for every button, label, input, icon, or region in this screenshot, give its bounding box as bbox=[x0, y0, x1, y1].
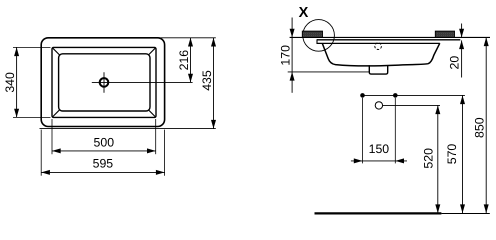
drain crosshair vertical bbox=[103, 72, 105, 93]
basin rim bottom line bbox=[317, 42, 440, 44]
dim 500 extension left bbox=[51, 119, 53, 154]
corner chamfer TR bbox=[148, 48, 155, 55]
bowl bottom rect bbox=[59, 54, 150, 111]
dim 595 line bbox=[41, 171, 164, 173]
corner chamfer TL bbox=[53, 48, 60, 55]
svg-text:435: 435 bbox=[200, 70, 214, 91]
fixing holes reference line bbox=[363, 94, 465, 96]
dim 340 line bbox=[16, 47, 18, 117]
fixing point left bbox=[360, 93, 365, 98]
dim 520 line bbox=[437, 105, 439, 213]
fixing point right bbox=[393, 93, 398, 98]
dim 595 extension right bbox=[164, 130, 166, 176]
dim 500 extension right bbox=[155, 119, 157, 154]
svg-text:150: 150 bbox=[369, 142, 390, 156]
dim 500 line bbox=[52, 150, 156, 152]
waste outlet reference line bbox=[383, 104, 440, 106]
overflow hole (hidden, dashed) bbox=[375, 43, 382, 50]
dim 150 extension left bbox=[362, 98, 364, 163]
basin rim front edge bbox=[316, 39, 318, 44]
corner chamfer BR bbox=[148, 110, 155, 117]
svg-text:340: 340 bbox=[3, 72, 17, 93]
basin outer rim (rounded rect) bbox=[41, 38, 164, 127]
svg-text:216: 216 bbox=[177, 50, 191, 71]
svg-text:520: 520 bbox=[422, 148, 436, 169]
svg-text:20: 20 bbox=[448, 56, 462, 70]
waste outlet circle bbox=[375, 102, 382, 109]
dim 435 line bbox=[213, 38, 215, 129]
countertop section right (hatched) bbox=[435, 31, 454, 37]
dim 340 extension bottom bbox=[13, 116, 51, 118]
extension line from top edge bbox=[155, 37, 216, 39]
dim 850 line bbox=[485, 37, 487, 213]
dim 20 lower line bbox=[461, 40, 463, 77]
svg-text:500: 500 bbox=[94, 135, 115, 149]
countertop underside line bbox=[290, 36, 490, 38]
dim 340 extension top bbox=[13, 46, 51, 48]
floor line thick bbox=[315, 212, 442, 214]
floor line thin bbox=[441, 213, 489, 215]
drain circle bbox=[100, 78, 109, 87]
svg-text:850: 850 bbox=[473, 117, 487, 138]
countertop section left (hatched) bbox=[302, 31, 322, 37]
dim 150 line bbox=[351, 160, 407, 162]
dim 216 line bbox=[190, 38, 192, 83]
svg-text:170: 170 bbox=[279, 45, 293, 66]
dim 170 line bbox=[291, 18, 293, 93]
basin bottom silhouette line bbox=[40, 128, 216, 130]
dim 150 extension right bbox=[394, 98, 396, 163]
dim 570 line bbox=[462, 95, 464, 213]
detail circle X bbox=[303, 20, 335, 52]
dim 20 upper line bbox=[461, 24, 463, 38]
dim 170 bottom extension bbox=[288, 71, 370, 73]
svg-text:570: 570 bbox=[445, 144, 459, 165]
drain crosshair horizontal / 216 extension bbox=[92, 81, 193, 83]
dim 595 extension left bbox=[40, 130, 42, 176]
basin rim top line + extension bbox=[317, 39, 460, 41]
bowl left wall, bottom and right wall bbox=[322, 43, 440, 66]
corner chamfer BL bbox=[53, 110, 60, 117]
drain boss bbox=[369, 65, 387, 74]
svg-text:595: 595 bbox=[93, 157, 114, 171]
svg-text:X: X bbox=[299, 5, 309, 21]
basin inner rim edge (bevel rect) bbox=[52, 47, 156, 117]
